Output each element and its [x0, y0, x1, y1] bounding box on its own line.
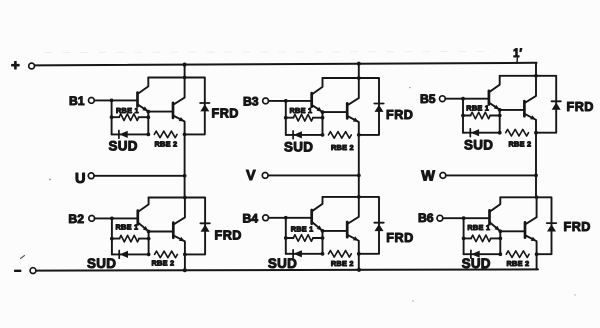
terminal B1: [69, 94, 138, 108]
svg-text:SUD: SUD: [109, 139, 138, 154]
+ rail wire: [35, 62, 537, 67]
svg-text:+: +: [11, 57, 20, 74]
transistor Q1A: [138, 78, 149, 112]
node 1': [513, 48, 522, 64]
svg-text:B6: B6: [418, 211, 434, 225]
transistor Q5A: [489, 76, 500, 110]
wire Q6A emitter to Q6B base: [498, 229, 525, 256]
transistor Q6B: [525, 197, 537, 254]
svg-text:RBE 1: RBE 1: [291, 224, 314, 233]
diode FRD cell B2: [185, 198, 242, 255]
transistor Q6A: [490, 197, 501, 231]
resistor RBE2 cell B5: [506, 129, 538, 148]
svg-text:FRD: FRD: [212, 107, 239, 121]
svg-text:V: V: [246, 168, 256, 184]
svg-text:RBE 1: RBE 1: [467, 223, 490, 232]
wire emitter cell B2 to - rail: [184, 254, 186, 270]
terminal W: [421, 169, 538, 185]
svg-text:FRD: FRD: [567, 100, 594, 114]
resistor RBE1 cell B4: [286, 224, 323, 241]
resistor RBE1 cell B3: [286, 106, 323, 121]
resistor RBE2 cell B2: [152, 251, 187, 267]
diode SUD cell B3: [284, 131, 323, 155]
diode SUD cell B1: [109, 131, 149, 154]
transistor Q4B: [347, 197, 359, 254]
svg-text:B5: B5: [420, 92, 436, 106]
resistor RBE1 cell B1: [112, 106, 149, 120]
svg-text:SUD: SUD: [462, 256, 491, 271]
transistor Q3B: [347, 78, 359, 135]
wire collector bus cell B2: [149, 196, 187, 200]
wire emitter cell B6 to - rail: [536, 254, 538, 269]
diode FRD cell B4: [359, 197, 414, 254]
svg-text:RBE 2: RBE 2: [509, 140, 532, 149]
diode SUD cell B6: [462, 250, 501, 271]
svg-text:FRD: FRD: [215, 229, 242, 243]
svg-text:SUD: SUD: [284, 140, 313, 155]
resistor RBE2 cell B4: [329, 251, 361, 269]
svg-text:RBE 1: RBE 1: [466, 104, 489, 113]
terminal B2: [68, 212, 137, 226]
wire + rail to collector cell B3: [358, 64, 360, 78]
wire B4 base node: [284, 218, 288, 254]
terminal B5: [420, 92, 489, 106]
diode SUD cell B5: [463, 129, 500, 153]
transistor Q1B: [173, 78, 185, 135]
terminal B4: [243, 212, 312, 226]
wire B1 base node: [110, 100, 114, 134]
transistor Q2A: [138, 198, 149, 232]
svg-text:FRD: FRD: [564, 220, 591, 234]
wire collector bus cell B3: [323, 76, 361, 80]
svg-text:B4: B4: [243, 212, 259, 226]
svg-text:RBE 2: RBE 2: [507, 259, 530, 268]
svg-text:FRD: FRD: [386, 231, 413, 245]
resistor RBE2 cell B6: [506, 251, 538, 268]
wire Q5A emitter to Q5B base: [498, 108, 525, 135]
wire emitter cell B4 to - rail: [358, 254, 360, 270]
wire collector bus cell B4: [323, 195, 361, 199]
terminal V: [246, 168, 361, 184]
wire collector bus cell B1: [148, 76, 186, 80]
svg-text:RBE 2: RBE 2: [331, 143, 354, 152]
svg-text:B3: B3: [243, 95, 259, 109]
svg-text:SUD: SUD: [464, 138, 493, 153]
wire phase node V: [358, 135, 360, 197]
resistor RBE1 cell B6: [464, 223, 501, 242]
wire collector bus cell B5: [500, 74, 538, 78]
wire B5 base node: [461, 99, 465, 133]
transistor Q2B: [173, 198, 185, 255]
terminal +: [11, 57, 35, 74]
wire phase node U: [184, 134, 186, 197]
- rail wire: [36, 268, 538, 273]
resistor RBE1 cell B2: [112, 223, 149, 242]
transistor Q3A: [312, 78, 323, 112]
transistor Q5B: [524, 76, 536, 133]
wire collector bus cell B6: [500, 195, 538, 199]
svg-text:U: U: [75, 171, 85, 187]
wire Q1A emitter to Q1B base: [146, 110, 173, 137]
resistor RBE2 cell B1: [154, 131, 186, 148]
wire Q3A emitter to Q3B base: [321, 110, 348, 137]
svg-text:FRD: FRD: [386, 108, 413, 122]
wire B3 base node: [284, 101, 288, 135]
wire Q2A emitter to Q2B base: [147, 230, 174, 257]
svg-text:RBE 2: RBE 2: [155, 140, 178, 149]
diode FRD cell B3: [359, 78, 414, 135]
svg-text:SUD: SUD: [87, 256, 116, 271]
svg-text:RBE 2: RBE 2: [331, 259, 354, 268]
terminal B3: [243, 95, 312, 109]
terminal B6: [418, 211, 490, 225]
svg-text:W: W: [421, 169, 435, 185]
wire + rail to collector cell B5: [535, 63, 537, 76]
svg-text:RBE 2: RBE 2: [152, 259, 175, 268]
svg-text:RBE 1: RBE 1: [116, 223, 139, 232]
wire B2 base node: [110, 218, 114, 254]
diode FRD cell B6: [537, 197, 591, 254]
resistor RBE1 cell B5: [463, 104, 500, 119]
terminal U: [75, 171, 187, 187]
svg-text:B2: B2: [68, 212, 84, 226]
diode SUD cell B4: [268, 250, 323, 271]
terminal -: [14, 264, 36, 278]
transistor Q4A: [312, 197, 323, 231]
svg-text:RBE 1: RBE 1: [290, 106, 313, 115]
svg-text:−: −: [14, 264, 21, 278]
wire phase node W: [535, 133, 537, 198]
diode FRD cell B1: [185, 78, 239, 135]
diode SUD cell B2: [87, 251, 149, 272]
resistor RBE2 cell B3: [329, 132, 361, 152]
wire Q4A emitter to Q4B base: [321, 229, 348, 256]
svg-text:B1: B1: [69, 94, 85, 108]
wire B6 base node: [462, 218, 466, 254]
wire + rail to collector cell B1: [184, 65, 186, 78]
diode FRD cell B5: [536, 76, 594, 133]
